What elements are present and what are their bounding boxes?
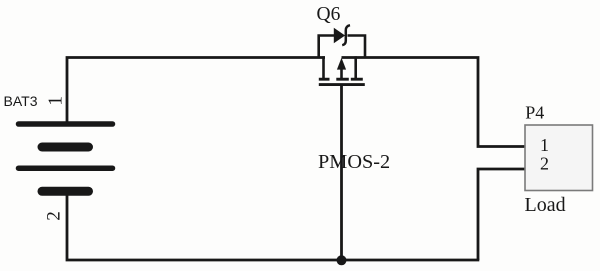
- battery plate short 1: [42, 143, 89, 152]
- svg-text:2: 2: [540, 154, 549, 174]
- body-diode loop: [319, 36, 335, 58]
- drain leg: [322, 56, 325, 78]
- gate bar: [319, 83, 365, 86]
- svg-text:P4: P4: [525, 102, 544, 122]
- junction dot at gate/bottom rail: [337, 255, 347, 265]
- connector P4 box: [525, 125, 593, 191]
- svg-text:BAT3: BAT3: [4, 93, 38, 109]
- wire top-right (Q6 source to P4 pin 1): [342, 58, 526, 147]
- svg-text:Q6: Q6: [317, 4, 341, 25]
- transistor Q6 (PMOS): [319, 25, 365, 84]
- battery BAT3: [19, 124, 113, 191]
- source leg: [354, 56, 357, 78]
- battery plate long 2: [19, 165, 113, 171]
- battery plate long 1: [19, 121, 113, 127]
- svg-text:1: 1: [540, 135, 549, 155]
- bulk arrow head: [337, 58, 346, 70]
- channel bars: [319, 78, 330, 81]
- wire gate lead: [340, 86, 343, 261]
- svg-text:Load: Load: [525, 194, 566, 216]
- svg-text:1: 1: [46, 96, 67, 106]
- battery plate short 2: [42, 187, 89, 196]
- wire pin2 to bottom rail: [478, 169, 526, 260]
- wire top-left (battery + to Q6 drain): [67, 58, 325, 122]
- wire bottom rail: [67, 191, 479, 260]
- svg-text:PMOS-2: PMOS-2: [318, 151, 390, 173]
- bulk arrow shaft: [340, 68, 343, 79]
- svg-text:2: 2: [43, 211, 64, 221]
- body diode cathode curl: [342, 25, 350, 45]
- body diode triangle: [334, 29, 344, 43]
